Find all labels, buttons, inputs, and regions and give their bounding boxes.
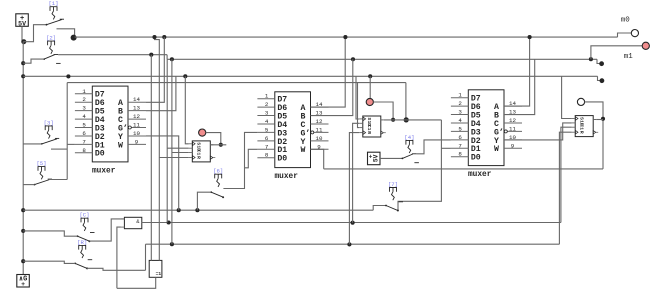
switch S7 [7] [385,181,403,212]
mux U2 74151 muxer [257,92,328,181]
wire D long horizontal to latch U5 column [67,82,406,84]
wire latch U6 output stub [596,119,603,121]
wire rail C drop to probe P3 [369,76,371,98]
svg-text:R: R [196,156,202,159]
svg-text:5: 5 [265,126,269,133]
svg-text:9: 9 [511,142,515,149]
svg-text:[6]: [6] [213,168,223,175]
wire rail G bottom bus [146,243,560,245]
wire branch to latch U4 C1 [172,152,189,154]
svg-text:6: 6 [458,134,462,141]
svg-text:D0: D0 [95,150,105,159]
svg-text:10: 10 [133,130,140,137]
svg-text:7: 7 [265,143,269,150]
node rail G junction x172 [170,242,174,246]
switch SR [R] [74,239,92,270]
wire rail C horizontal bus [23,75,597,77]
svg-text:[C]: [C] [79,212,89,219]
node rail B junction at m1 tap [589,57,593,61]
wire switch 6 pole feed from rail E [197,192,211,210]
svg-text:8: 8 [265,152,269,159]
svg-text:1: 1 [265,93,269,100]
wire and gate output to rail F [142,222,561,224]
svg-text:2: 2 [265,101,269,108]
wire switch 1 pole feed [23,25,46,42]
wire rail B continuation [167,58,597,60]
wire mux U2 pin9 W to return rail H [311,149,324,169]
svg-text:W: W [118,141,123,150]
probe P3 red at latch U5 [366,98,373,105]
wire D column at x67 [66,83,68,180]
wire latch U5 output rail [384,119,442,121]
node latch U5 output rail junction [404,117,409,122]
wire rail E bottom bus 1 [23,209,373,211]
xor gate G2 [149,260,162,277]
svg-text:12: 12 [133,113,140,120]
svg-text:+: + [21,281,25,288]
svg-text:D0: D0 [277,155,287,164]
svg-text:C1: C1 [366,125,372,131]
wire rail B column down to rail G [171,59,173,244]
svg-text:1: 1 [82,88,86,95]
svg-text:5: 5 [458,125,462,132]
wire mux U3 pin13 to rail C [504,59,535,114]
wire switch R throw to xor column [87,268,145,270]
svg-text:7: 7 [82,138,86,145]
wire branch to mux U3 D1 [441,147,451,149]
node left rail junction at switch R feed [21,259,25,263]
svg-text:[3]: [3] [44,119,54,126]
svg-text:11: 11 [133,122,140,129]
wire return rail H under muxes [324,168,603,170]
wire rail A top horizontal bus [75,36,618,38]
wire switch 3 throw tap [56,148,68,150]
svg-text:=1: =1 [156,271,162,277]
node rail C junction at probe P3 [368,74,372,78]
svg-text:9: 9 [135,138,139,145]
wire switch 3 throw tick [51,148,56,150]
battery V2 +5V [368,152,381,165]
svg-text:R: R [366,131,372,134]
wire mux U1 pin13 to rail C [146,76,176,110]
svg-text:6: 6 [265,135,269,142]
wire rail C drop to latch U4 S [185,76,188,144]
svg-text:6: 6 [82,130,86,137]
wire rail A to output m0 [618,33,632,37]
wire mux U1 pin10 Y to rail E [146,136,179,210]
wire rail B from switch 2 throw [58,54,167,56]
wire xor output loop to and gate [117,277,156,288]
wire latch U5 output drop to switch 7 throw [398,120,441,210]
wire switch 3 pole feed [23,143,42,145]
wire probe P2 to latch U4 output rail [206,133,221,145]
wire rail G end riser to latch U6 R [559,132,571,244]
wire rail B jog down [166,55,168,60]
node left rail junction at switch C feed [21,229,25,233]
wire switch 2 pole feed from left rail [23,59,44,63]
latch U6 D-latch [572,116,599,137]
wire branch to mux U1 D1 [67,143,75,145]
wire mux U2 pin14 to rail A riser [311,37,346,107]
wire rail C branch to latch U6 S [562,76,572,118]
latch U4 D-latch [189,141,216,162]
wire battery V2 to switch 4 pole [380,157,402,159]
svg-text:5V: 5V [372,154,379,162]
node rail A junction x154 [152,35,156,39]
node rail A origin [71,35,77,41]
svg-text:4: 4 [265,118,269,125]
wire rail B jog column down to rail F [166,59,168,222]
wire switch 5 pole feed [23,184,34,186]
wire rail B end step [597,59,600,63]
node rail A junction x530 [528,35,532,39]
wire switch R pole feed [23,261,75,263]
wire rail C end step [598,76,601,80]
svg-text:muxer: muxer [468,171,492,179]
left power rail [22,42,24,275]
wire probe P4 to latch U6 output [585,102,603,119]
svg-text:1: 1 [458,92,462,99]
node rail B junction x353 [351,57,355,61]
wire probe P3 to latch U5 output rail [373,102,393,120]
wire mux U2 pin13 to rail C [311,59,353,115]
wire vertical column B1 from rail B [150,55,152,261]
svg-text:11: 11 [316,126,323,133]
svg-text:4: 4 [458,117,462,124]
node left-rail junction at C rail [21,74,25,78]
svg-text:3: 3 [82,105,86,112]
wire switch C pole feed [23,231,77,236]
switch S6 [6] [210,168,228,199]
wire switch C throw to AND gate input A [89,219,124,241]
battery V1 +5V [16,14,28,28]
node latch U4 output junction [219,143,223,147]
wire rail F end riser to latch U6 C1 [561,127,572,222]
svg-text:[R]: [R] [77,239,87,246]
switch S4 [4] [402,134,419,163]
wire return rail H right riser [602,119,604,169]
node rail C junction x185 [183,74,187,78]
wire branch to latch U4 1D [167,147,189,149]
wire rail G left end drop [145,244,147,270]
svg-text:[1]: [1] [48,0,58,7]
svg-text:7: 7 [458,142,462,149]
wire latch U5 1D drop to rail F [353,123,360,222]
switch S2 [2] [43,35,60,64]
svg-text:C1: C1 [196,150,202,156]
svg-text:12: 12 [509,117,516,124]
node latch U5 output junction [391,118,395,122]
node rail C end terminal [600,78,605,83]
svg-text:3: 3 [265,110,269,117]
svg-text:R: R [578,131,584,134]
svg-text:8: 8 [82,147,86,154]
node rail B end terminal [599,61,604,66]
svg-text:8: 8 [458,151,462,158]
node rail B junction x172 [170,57,174,61]
wire latch U5 R drop to rail G [349,133,359,245]
node rail E junction mux U1 Y riser [177,208,181,212]
node rail E junction switch 6 pole [195,208,199,212]
svg-text:2: 2 [458,100,462,107]
switch SC [C] [77,212,95,243]
svg-text:4: 4 [82,113,86,120]
wire switch 6 throw to mux U2 D3 and D1 [223,132,257,188]
wire vertical column from rail A to xor [155,37,160,260]
switch S5 [5] [34,160,52,185]
node rail C junction x68 [66,74,70,78]
node left rail bottom junction at rail E [21,208,25,212]
wire and gate input B from xor loop [117,227,121,288]
and gate G1 [121,217,142,228]
svg-text:14: 14 [133,96,140,103]
svg-text:10: 10 [316,135,323,142]
node latch U6 output junction [601,117,605,121]
wire switch 4 throw to mux U3 D2 [416,140,451,154]
probe P4 white at latch U6 [577,98,584,105]
svg-text:2: 2 [82,96,86,103]
svg-text:m1: m1 [624,53,634,61]
svg-text:[4]: [4] [404,134,414,141]
mux U3 74151 muxer [451,90,522,179]
latch U5 D-latch [359,116,386,137]
svg-text:muxer: muxer [92,168,116,176]
node left-rail junction at switch 2 branch [21,61,25,65]
wire latch U4 output rail [210,144,226,146]
svg-text:[5]: [5] [36,160,46,167]
node rail F junction latch U5 1D riser [351,221,355,225]
wire rail B drop to latch U5 S [356,76,359,119]
svg-text:C1: C1 [578,124,584,130]
wire switch 5 throw to D column [49,179,68,181]
wire mux U1 pin14 to rail A riser [146,37,164,102]
wire branch to latch U4 R [159,157,188,159]
node rail G junction latch U5 R riser [347,242,351,246]
node rail B junction x151 [149,53,153,57]
probe m1 output [642,42,649,49]
wire switch 1 throw to rail A [57,28,61,30]
svg-text:muxer: muxer [275,173,299,181]
switch S1 [1] [46,0,64,25]
wire m1 riser and lead [591,46,642,59]
mux U1 74151 muxer [75,86,146,175]
wire mux U3 pin14 to rail A riser [504,37,530,106]
wire latch U5 C1 tap from wire D [358,83,360,128]
svg-text:13: 13 [133,105,140,112]
wire D drop to latch U5 output rail [405,83,407,120]
ground battery AG at bottom left [17,275,30,289]
svg-text:m0: m0 [621,17,631,25]
svg-text:W: W [494,145,499,154]
svg-text:[7]: [7] [388,181,398,188]
node rail A junction x164 [162,35,166,39]
svg-text:D0: D0 [471,154,481,163]
wire mux U3 pin10 Y to latch U6 1D [504,123,572,140]
svg-text:W: W [301,146,306,155]
probe m0 output [631,29,638,36]
wire branch to mux U2 D1 [245,149,258,168]
wire rail E jog up to switch 7 pole [373,206,386,211]
wire battery V1 down to left rail [22,26,23,41]
node rail A junction x345 [343,35,347,39]
svg-text:5: 5 [82,122,86,129]
node rail F junction x168 [167,220,171,224]
node left-rail junction at switch 1 branch [21,39,26,44]
svg-text:12: 12 [316,118,323,125]
svg-text:11: 11 [509,125,516,132]
svg-text:[2]: [2] [46,35,56,42]
probe P2 red at latch U4 [199,129,206,136]
switch S3 [3] [41,119,59,144]
svg-text:3: 3 [458,109,462,116]
